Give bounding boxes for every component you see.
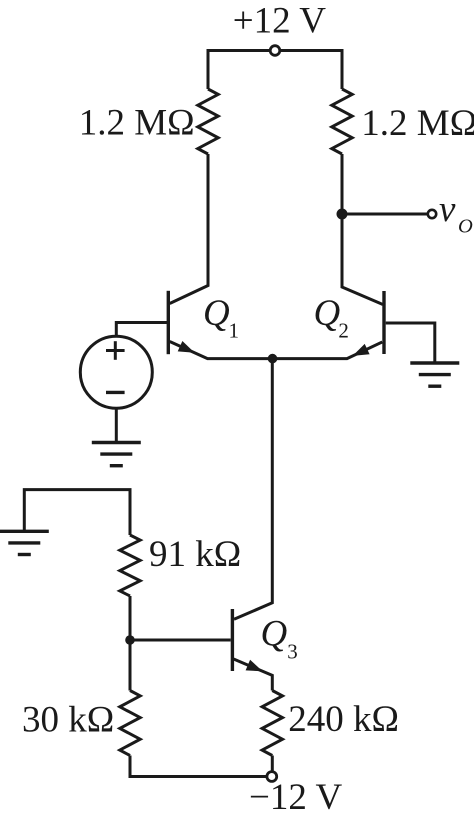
svg-text:2: 2	[338, 319, 349, 343]
svg-text:Q: Q	[314, 293, 341, 334]
svg-text:30 kΩ: 30 kΩ	[22, 700, 114, 741]
svg-text:v: v	[439, 189, 456, 230]
svg-text:1.2 MΩ: 1.2 MΩ	[79, 103, 195, 144]
svg-text:3: 3	[287, 639, 298, 663]
svg-text:Q: Q	[203, 293, 230, 334]
svg-text:240 kΩ: 240 kΩ	[288, 699, 399, 740]
svg-text:O: O	[458, 216, 473, 238]
svg-text:91 kΩ: 91 kΩ	[149, 534, 241, 575]
svg-text:Q: Q	[261, 614, 288, 655]
svg-text:1.2 MΩ: 1.2 MΩ	[361, 103, 474, 144]
svg-text:1: 1	[229, 319, 240, 343]
svg-text:+12 V: +12 V	[233, 1, 326, 42]
svg-text:−12 V: −12 V	[249, 777, 342, 818]
